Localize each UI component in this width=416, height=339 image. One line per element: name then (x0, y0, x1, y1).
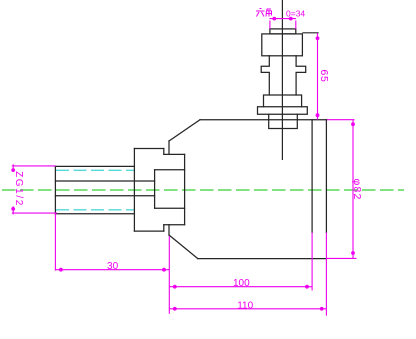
dim 30 line (55, 269, 169, 271)
dim 100 ext right (311, 233, 313, 291)
stem cap (270, 29, 296, 34)
ZG ext bottom (12, 212, 57, 214)
svg-text:0=34: 0=34 (286, 8, 305, 18)
dia82 ext bottom (326, 257, 356, 259)
dim 100 line (169, 286, 312, 288)
dim 110 ext right (325, 233, 327, 316)
arrow dots dim 65 (316, 36, 320, 40)
thread root line bottom (cyan dashed) (56, 209, 134, 211)
dim 65 line (317, 33, 319, 120)
pipe top edge (55, 165, 134, 167)
stem thread into body C (269, 114, 298, 128)
body upper ledge (164, 153, 185, 155)
ZG ext top (12, 165, 56, 167)
vertical centerline of stem (281, 0, 283, 160)
body left face (184, 154, 186, 224)
stem hex block (262, 34, 303, 56)
dim 30 ext left (54, 213, 56, 271)
body top-left chamfer (169, 120, 200, 141)
svg-text:100: 100 (233, 278, 250, 289)
body bottom edge (198, 258, 327, 260)
svg-text:65: 65 (318, 70, 330, 83)
dim 110 line (169, 308, 326, 310)
bore line top (55, 180, 154, 182)
body left lower edge (168, 225, 170, 235)
dia82 ext top (327, 119, 355, 121)
union nut top (134, 148, 163, 150)
thread root line top (cyan dashed) (56, 169, 134, 171)
label hex char 1 (six) (256, 9, 272, 17)
stem base flange B (258, 107, 308, 115)
dim 34 line (269, 18, 296, 20)
stem neck left with tab (261, 56, 269, 95)
shared ext line left of 100/110 (168, 236, 170, 314)
socket boss top (155, 169, 185, 171)
svg-text:φ82: φ82 (351, 178, 363, 200)
pipe left end (54, 166, 56, 213)
svg-text:ZG1/2: ZG1/2 (13, 171, 24, 207)
svg-text:110: 110 (237, 300, 253, 311)
dim 34 ext left (269, 21, 271, 29)
label hex char 2 (jiao) (266, 9, 272, 17)
dim 34 ext right (295, 21, 297, 29)
arrow dots dia82 (351, 122, 355, 126)
stem lower flange A (264, 95, 302, 107)
arrow dots dim 110 (173, 307, 177, 311)
union nut bottom step (163, 225, 165, 231)
socket boss left (154, 170, 156, 209)
ZG dim line bottom seg (12, 206, 14, 214)
body right edge (325, 120, 327, 233)
body lower ledge (164, 224, 185, 226)
arrow dots dim 30 (59, 268, 63, 272)
ZG dim line top seg (12, 164, 14, 172)
arrow dots ZG (11, 168, 15, 172)
union nut top step (163, 149, 165, 155)
union nut left edge (133, 149, 135, 232)
bore line bottom (55, 195, 154, 197)
socket boss bottom (155, 207, 185, 209)
arrow dots dim 100 (173, 285, 177, 289)
body top edge (200, 119, 326, 121)
pipe bottom edge (55, 213, 134, 215)
arrow dots dim 34 (272, 17, 276, 21)
body left upper edge (168, 141, 170, 154)
body inner rim line (311, 120, 313, 233)
body bottom-left chamfer (169, 235, 198, 259)
svg-text:30: 30 (107, 261, 119, 272)
stem neck right with tab (296, 56, 306, 95)
dia82 dim line (352, 120, 354, 259)
horizontal centerline (2, 189, 404, 191)
union nut bottom (134, 230, 163, 232)
dim 65 ext top (dark) (303, 32, 318, 34)
